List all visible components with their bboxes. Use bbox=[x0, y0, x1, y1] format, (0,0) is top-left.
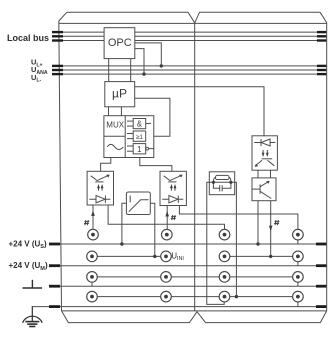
wire opto1 to terminal A1 bbox=[92, 205, 94, 229]
light arrows opto-out bbox=[262, 153, 265, 157]
wire filter right leg to row D bbox=[235, 182, 237, 296]
light arrows opto2 bbox=[170, 184, 173, 188]
terminal circles bbox=[87, 229, 304, 302]
wire row C bbox=[97, 276, 160, 278]
svg-text:MUX: MUX bbox=[106, 120, 124, 129]
wire transistor right leg to output terminal bbox=[270, 201, 272, 257]
wire uP to OR gate bbox=[135, 98, 170, 136]
OPC box bbox=[104, 28, 135, 59]
light arrows opto1 bbox=[97, 184, 100, 188]
AND gate bbox=[127, 119, 151, 129]
arrow opto1 emitter bbox=[106, 175, 110, 178]
arrow opto2 emitter bbox=[179, 175, 183, 178]
arrow up terminal A2 bbox=[165, 211, 169, 217]
optocoupler input 2 bbox=[160, 171, 186, 205]
wire opto2 to terminal A2 bbox=[166, 206, 168, 230]
node limiter/UINI bbox=[153, 255, 156, 258]
local bus lines bbox=[53, 32, 318, 40]
wire MUX to opto2 bbox=[140, 156, 172, 172]
segment divider bbox=[194, 23, 196, 311]
current limiter I box bbox=[126, 192, 150, 215]
wire uP to MUX left bbox=[108, 107, 110, 116]
node OPC/UL- bbox=[142, 72, 145, 75]
bus rail +24V UM bbox=[50, 265, 318, 267]
node filter right pin bbox=[229, 181, 232, 184]
RC filter box bbox=[209, 172, 234, 195]
stub terminal B4 to UM rail bbox=[297, 262, 299, 266]
terminal row B bbox=[87, 251, 98, 262]
node filter left pin bbox=[212, 181, 215, 184]
sine symbol in MUX bbox=[107, 144, 123, 149]
OR gate bbox=[127, 131, 146, 141]
stub terminal D4 to shield rail bbox=[297, 302, 299, 307]
node transistor/US rail bbox=[256, 242, 259, 245]
wire uP to opto out bbox=[135, 87, 264, 136]
optocoupler output bbox=[252, 136, 277, 170]
wire current limiter left to US rail bbox=[122, 203, 127, 244]
svg-text:OPC: OPC bbox=[108, 37, 132, 49]
svg-text:1: 1 bbox=[137, 145, 141, 154]
node filter/row D bbox=[235, 295, 238, 298]
MUX and logic box bbox=[104, 116, 154, 158]
wire filter left leg to terminal D3 bbox=[207, 182, 224, 304]
terminal row D bbox=[87, 291, 98, 302]
module case outline bbox=[59, 12, 327, 322]
transistor arrows inside opto symbols bbox=[97, 153, 270, 188]
wire OPC to UL+ bbox=[135, 43, 162, 66]
wire transistor left leg to US rail bbox=[257, 201, 259, 244]
UL+ / UANA / UL- supply lines bbox=[53, 66, 318, 74]
hash mark opto1 bbox=[84, 220, 89, 225]
bus rail GND bbox=[50, 285, 318, 287]
terminal center dots bbox=[90, 233, 300, 299]
wire row B right bbox=[230, 255, 293, 257]
stub terminal C4 to GND rail bbox=[297, 282, 299, 286]
hash mark opto2 bbox=[171, 215, 176, 220]
node OPC/UL+ bbox=[160, 64, 163, 67]
wire current limiter right to UINI bbox=[150, 203, 155, 256]
wire opto out to transistor links bbox=[257, 170, 259, 178]
arrow opto-out emitter bbox=[255, 164, 259, 167]
wire uP to MUX right bbox=[120, 107, 122, 116]
wire opto1 to terminal A3 bbox=[108, 205, 224, 229]
wire MUX to opto1 bbox=[101, 158, 111, 172]
arrow up terminal A1 bbox=[91, 210, 95, 216]
node transistor/output row bbox=[269, 255, 272, 258]
wire OPC to UL- bbox=[135, 49, 144, 75]
stub terminal A4 to US rail bbox=[297, 240, 299, 244]
bus connection ticks left bbox=[49, 31, 63, 308]
terminal row A bbox=[88, 229, 99, 240]
wire OPC to uP left bbox=[108, 59, 110, 82]
protective earth symbol bbox=[23, 307, 43, 327]
NOT gate bbox=[127, 144, 154, 154]
wire opto2 to terminal A4 bbox=[179, 206, 298, 230]
arrow output transistor collector bbox=[266, 181, 270, 184]
arrow down transistor output bbox=[269, 226, 273, 232]
hash mark output bbox=[274, 220, 279, 225]
output transistor box bbox=[252, 178, 276, 201]
node limiter/US rail bbox=[120, 242, 123, 245]
stub terminal C1 to GND rail bbox=[91, 282, 93, 286]
bus rail +24V US bbox=[50, 243, 318, 245]
optocoupler input 1 bbox=[87, 171, 113, 205]
terminal row C bbox=[87, 272, 98, 283]
bus rail shield bbox=[32, 306, 318, 308]
svg-text:&: & bbox=[137, 120, 143, 129]
arrowheads bbox=[91, 210, 272, 231]
svg-text:µP: µP bbox=[112, 87, 127, 101]
bus connection ticks right bbox=[316, 31, 326, 308]
wire OPC to uP right bbox=[130, 59, 132, 82]
svg-text:Local bus: Local bus bbox=[7, 33, 49, 43]
ground symbol bbox=[23, 280, 43, 288]
wire row B left bbox=[97, 255, 160, 257]
wire row D bbox=[97, 296, 160, 298]
uP box bbox=[105, 82, 135, 107]
svg-text:≥1: ≥1 bbox=[136, 134, 144, 141]
